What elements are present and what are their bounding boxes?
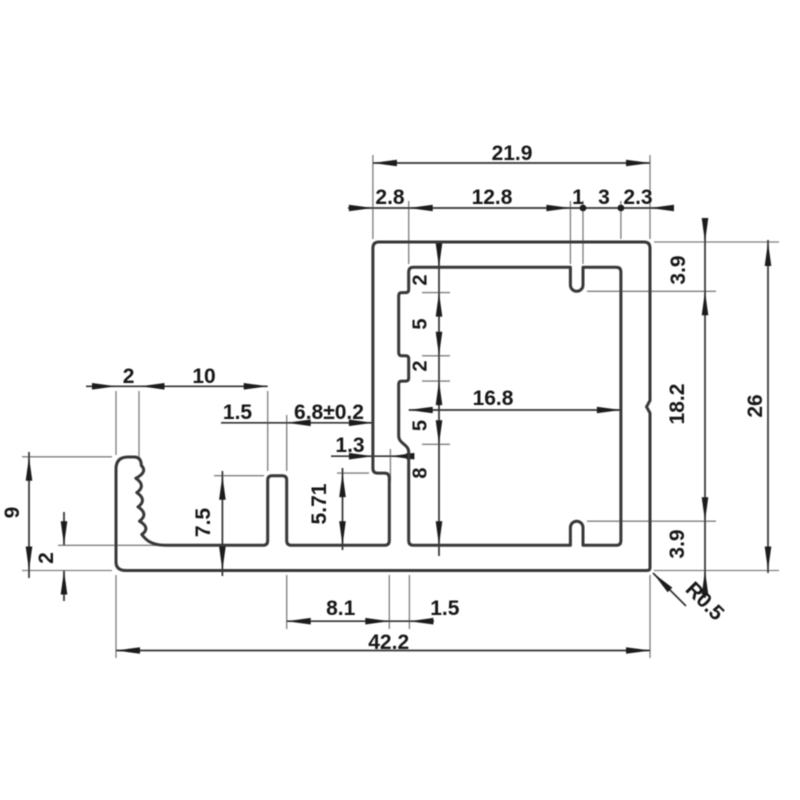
svg-text:16.8: 16.8 <box>473 387 514 410</box>
svg-text:1: 1 <box>572 186 584 209</box>
svg-text:42.2: 42.2 <box>368 631 409 654</box>
svg-text:12.8: 12.8 <box>472 186 513 209</box>
svg-text:21.9: 21.9 <box>492 142 533 165</box>
svg-text:5: 5 <box>410 420 432 431</box>
svg-text:2.8: 2.8 <box>375 186 405 209</box>
svg-text:1.5: 1.5 <box>223 401 253 424</box>
svg-text:8: 8 <box>410 467 432 478</box>
svg-text:7.5: 7.5 <box>192 508 215 538</box>
svg-text:2: 2 <box>123 365 135 388</box>
svg-text:5.71: 5.71 <box>308 483 331 524</box>
svg-text:R0.5: R0.5 <box>681 578 729 626</box>
svg-text:3: 3 <box>598 186 610 209</box>
svg-text:2: 2 <box>35 552 58 564</box>
svg-text:18.2: 18.2 <box>666 384 689 425</box>
svg-text:8.1: 8.1 <box>326 597 356 620</box>
svg-text:2.3: 2.3 <box>623 186 652 209</box>
svg-text:3.9: 3.9 <box>667 255 690 284</box>
svg-text:26: 26 <box>744 394 767 417</box>
svg-text:9: 9 <box>1 507 24 519</box>
svg-text:6.8±0.2: 6.8±0.2 <box>294 401 364 424</box>
svg-text:1.3: 1.3 <box>335 434 364 457</box>
svg-text:2: 2 <box>410 360 432 371</box>
svg-text:3.9: 3.9 <box>666 529 689 558</box>
svg-text:1.5: 1.5 <box>430 597 460 620</box>
svg-text:10: 10 <box>192 365 215 388</box>
svg-text:2: 2 <box>410 274 432 285</box>
svg-text:5: 5 <box>410 318 432 329</box>
